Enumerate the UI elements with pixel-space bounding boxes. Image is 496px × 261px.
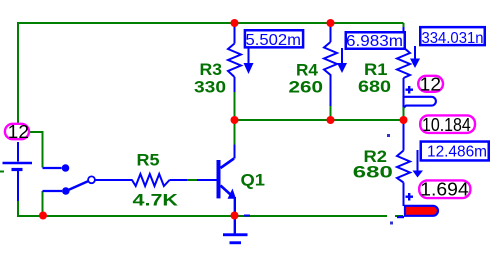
- probe box 12.486m: [421, 142, 489, 161]
- stray blue dash on rail: [244, 215, 250, 217]
- wire: node 12 elbow to switch upper contact: [29, 132, 43, 168]
- wire: lamp L1 to mid rail: [403, 107, 405, 121]
- voltage label 12 at lamp L1: [418, 76, 443, 92]
- junction dot top R4: [327, 19, 335, 27]
- svg-text:12: 12: [420, 74, 441, 94]
- resistor R1 bottom lead into lamp: [403, 78, 405, 108]
- resistor R3 top lead: [234, 23, 236, 44]
- wire: R1 green bend stub: [403, 23, 405, 27]
- svg-text:12: 12: [8, 122, 29, 142]
- switch S1 blade: [66, 181, 89, 191]
- svg-text:4.7K: 4.7K: [133, 191, 179, 209]
- svg-text:10.184: 10.184: [422, 115, 471, 135]
- voltage label 12 at battery: [5, 124, 29, 139]
- lamp L1 plus sign: [406, 86, 414, 94]
- svg-text:R5: R5: [137, 152, 160, 170]
- wire: left edge tick near battery: [0, 171, 4, 173]
- junction dot mid R2/lamp: [400, 116, 408, 124]
- lamp L2 plus sign: [406, 193, 414, 201]
- resistor R4 top lead: [330, 23, 332, 42]
- junction dot rail emitter: [231, 212, 239, 220]
- junction dot mid R3/collector: [231, 116, 239, 124]
- current arrow at R3: [248, 48, 250, 64]
- svg-text:680: 680: [353, 164, 393, 182]
- lamp L2 bottom lead nub: [397, 216, 404, 218]
- svg-text:Q1: Q1: [241, 171, 266, 189]
- stray dot 1: [387, 134, 390, 137]
- resistor R1 top lead: [403, 27, 405, 48]
- wire: emitter lead / ground stem: [234, 197, 236, 234]
- svg-text:5.502m: 5.502m: [246, 32, 302, 49]
- ground symbol bar 1: [223, 233, 248, 236]
- wire: base lead into Q1: [197, 179, 217, 181]
- wire: switch pole to R5: [96, 179, 133, 181]
- wire: switch lower contact to bottom rail: [42, 191, 44, 216]
- junction dot mid R4: [327, 116, 335, 124]
- stray dot 2: [390, 222, 393, 225]
- wire: left rail and top rail: [18, 23, 404, 123]
- resistor R5 4.7K body: [132, 174, 170, 186]
- wire: collector/R3 green link to mid rail: [234, 92, 236, 145]
- transistor Q1 emitter diagonal: [221, 186, 232, 196]
- probe box 334.031n: [420, 27, 485, 45]
- wire: battery negative stub to rail: [17, 201, 19, 217]
- resistor R3 330 body: [228, 44, 241, 78]
- resistor R3 bottom lead: [234, 77, 236, 92]
- lamp L2 body (lit red): [405, 206, 438, 216]
- switch S1 upper throw contact: [43, 167, 62, 169]
- resistor R2 top lead: [403, 121, 405, 151]
- svg-text:680: 680: [358, 78, 391, 96]
- switch S1 lower throw contact: [43, 190, 63, 192]
- resistor R4 bottom lead: [330, 78, 332, 106]
- resistor R1 680 body: [397, 48, 410, 79]
- current arrow at R2: [417, 150, 419, 171]
- resistor R2 680 body: [397, 151, 410, 183]
- junction dot rail switch: [39, 212, 47, 220]
- switch S1 pole pivot circle: [88, 176, 95, 183]
- svg-text:260: 260: [289, 78, 324, 96]
- resistor R2 bottom lead: [403, 183, 405, 207]
- voltage label 1.694: [419, 180, 470, 198]
- svg-text:6.983m: 6.983m: [346, 33, 403, 50]
- resistor R4 260 body: [324, 42, 337, 78]
- current arrow at R4: [341, 48, 343, 63]
- lamp L1 body (off): [404, 97, 436, 108]
- wire: R4 green link to mid rail: [330, 106, 332, 121]
- probe box 6.983m: [346, 32, 405, 49]
- svg-text:330: 330: [194, 78, 226, 96]
- wire: collector lead up: [234, 144, 236, 159]
- wire: bottom ground rail: [17, 215, 403, 217]
- ground symbol bar 2: [230, 241, 242, 244]
- wire: green segment on base wire: [187, 179, 197, 181]
- svg-text:R3: R3: [200, 61, 223, 79]
- current arrow at R1: [414, 46, 416, 59]
- svg-text:R4: R4: [296, 62, 318, 80]
- svg-text:12.486m: 12.486m: [427, 144, 487, 161]
- svg-text:334.031n: 334.031n: [422, 30, 484, 47]
- transistor Q1 base bar: [217, 160, 221, 198]
- transistor Q1 emitter arrowhead: [228, 189, 237, 199]
- junction dot top R3: [231, 19, 239, 27]
- probe box 5.502m: [245, 30, 303, 47]
- svg-text:R1: R1: [364, 61, 388, 79]
- svg-text:1.694: 1.694: [420, 180, 468, 200]
- voltage label 10.184: [420, 115, 475, 132]
- wire: R5 right lead: [170, 179, 188, 181]
- battery V1 12V: [3, 142, 33, 201]
- wire: middle rail: [235, 119, 404, 121]
- transistor Q1 collector diagonal: [221, 159, 235, 169]
